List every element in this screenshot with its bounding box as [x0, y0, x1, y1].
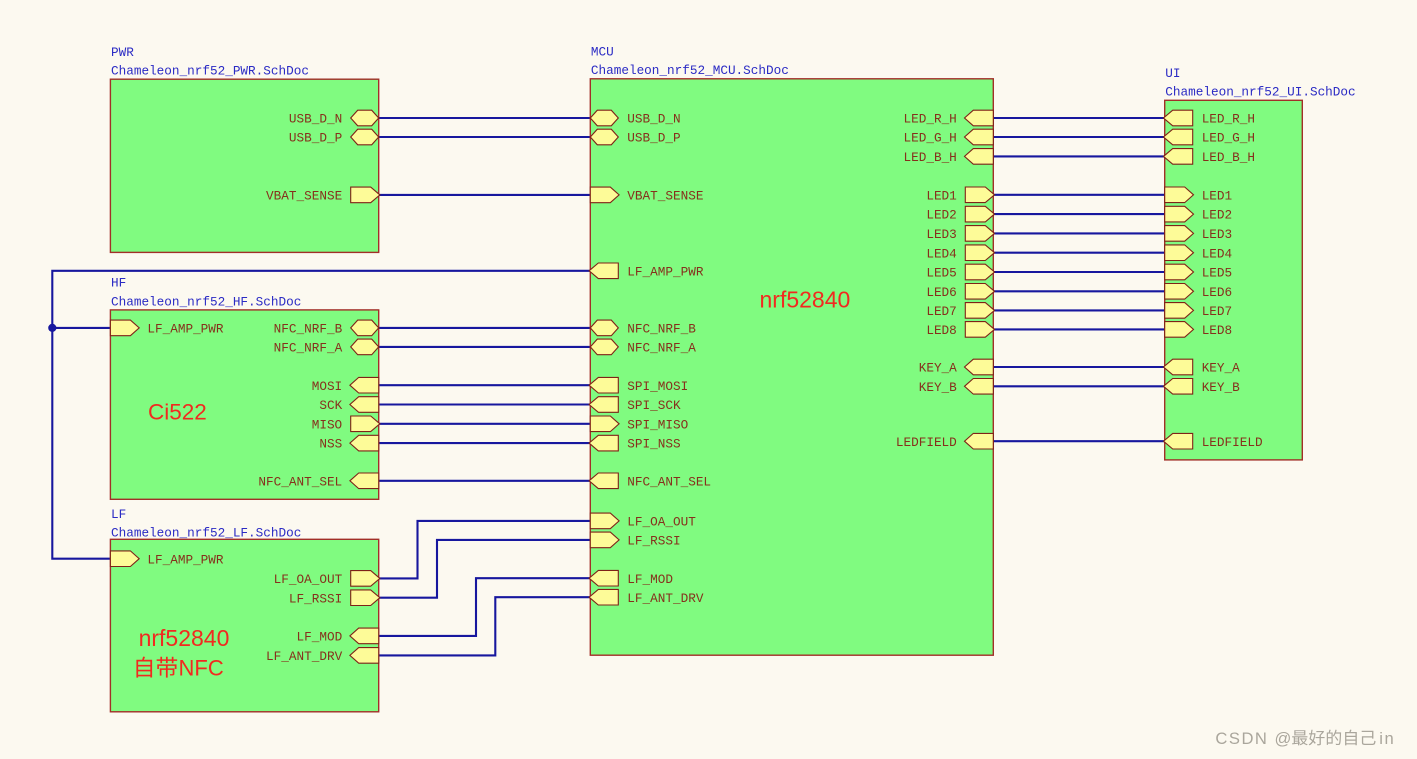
port KEY_A (MCU) [919, 359, 994, 375]
svg-text:NFC_ANT_SEL: NFC_ANT_SEL [627, 474, 711, 489]
svg-text:LF: LF [111, 507, 126, 522]
wire LEDFIELD [993, 440, 1164, 442]
wire KEY_B [993, 385, 1164, 387]
wire LED_R_H [993, 117, 1164, 119]
svg-text:LED3: LED3 [926, 227, 956, 242]
port SCK (HF) [319, 397, 378, 413]
svg-text:USB_D_N: USB_D_N [627, 112, 680, 127]
wire LED4 [993, 252, 1164, 254]
port USB_D_N (MCU) [590, 110, 680, 126]
wire USB_D_N [379, 117, 591, 119]
svg-text:UI: UI [1165, 66, 1180, 81]
port LED4 (UI) [1165, 245, 1232, 261]
wire LED5 [993, 271, 1164, 273]
wire LED2 [993, 213, 1164, 215]
svg-text:Chameleon_nrf52_LF.SchDoc: Chameleon_nrf52_LF.SchDoc [111, 526, 301, 541]
svg-text:LED8: LED8 [1202, 323, 1232, 338]
wire LF_MOD [379, 578, 591, 636]
port LF_MOD (LF) [297, 628, 379, 644]
svg-text:MOSI: MOSI [312, 379, 342, 394]
sheet symbol HF title [111, 276, 301, 310]
port SPI_SCK (MCU) [589, 397, 681, 413]
svg-text:USB_D_N: USB_D_N [289, 112, 342, 127]
svg-text:USB_D_P: USB_D_P [627, 131, 680, 146]
sheet symbol PWR [110, 79, 378, 252]
port LED7 (MCU) [926, 303, 994, 319]
svg-text:Ci522: Ci522 [148, 399, 207, 424]
port LEDFIELD (MCU) [896, 433, 993, 449]
sheet symbol LF [110, 539, 378, 712]
svg-text:MISO: MISO [312, 417, 342, 432]
svg-text:KEY_B: KEY_B [919, 380, 957, 395]
wire VBAT_SENSE [379, 194, 591, 196]
port LED1 (MCU) [926, 187, 994, 203]
port LED_R_H (UI) [1164, 110, 1255, 126]
svg-text:LF_OA_OUT: LF_OA_OUT [627, 515, 696, 530]
wire LF_RSSI [379, 540, 591, 598]
svg-text:LF_ANT_DRV: LF_ANT_DRV [627, 591, 704, 606]
wire KEY_A [993, 366, 1164, 368]
svg-text:NFC: NFC [179, 656, 224, 681]
svg-text:NFC_NRF_B: NFC_NRF_B [274, 322, 343, 337]
svg-text:LED6: LED6 [926, 285, 956, 300]
svg-text:nrf52840: nrf52840 [760, 286, 851, 312]
svg-text:LED_B_H: LED_B_H [904, 150, 957, 165]
port LF_AMP_PWR (LF) [110, 551, 224, 567]
svg-text:LF_AMP_PWR: LF_AMP_PWR [627, 264, 704, 279]
svg-text:LED_R_H: LED_R_H [904, 112, 957, 127]
svg-text:LF_AMP_PWR: LF_AMP_PWR [147, 322, 224, 337]
svg-text:SPI_MISO: SPI_MISO [627, 417, 688, 432]
port LED_B_H (MCU) [904, 149, 994, 165]
svg-text:LF_ANT_DRV: LF_ANT_DRV [266, 649, 343, 664]
port NFC_NRF_A (MCU) [590, 339, 696, 355]
port SPI_MOSI (MCU) [589, 377, 688, 393]
wire NFC_NRF_B [379, 327, 591, 329]
wire LED3 [993, 232, 1164, 234]
wire LED6 [993, 290, 1164, 292]
wire LED8 [993, 328, 1164, 330]
svg-text:LED_G_H: LED_G_H [904, 131, 957, 146]
wire SPI_NSS [379, 442, 591, 444]
svg-text:KEY_A: KEY_A [1202, 361, 1240, 376]
svg-text:LED1: LED1 [926, 188, 956, 203]
port LED4 (MCU) [926, 245, 994, 261]
svg-text:NFC_NRF_B: NFC_NRF_B [627, 322, 696, 337]
wire NFC_NRF_A [379, 346, 591, 348]
svg-text:LED2: LED2 [1202, 208, 1232, 223]
sheet symbol UI [1165, 100, 1303, 460]
port LF_OA_OUT (LF) [274, 571, 380, 587]
svg-text:MCU: MCU [591, 45, 614, 60]
svg-text:NFC_NRF_A: NFC_NRF_A [627, 341, 696, 356]
port LF_AMP_PWR (HF) [110, 320, 224, 336]
svg-text:SPI_SCK: SPI_SCK [627, 398, 681, 413]
junction LF_AMP_PWR node [48, 324, 56, 332]
port MISO (HF) [312, 416, 380, 432]
svg-text:LED5: LED5 [926, 266, 956, 281]
port VBAT_SENSE (PWR) [266, 187, 380, 203]
wire NFC_ANT_SEL [379, 480, 591, 482]
port SPI_NSS (MCU) [589, 435, 680, 451]
svg-text:LED7: LED7 [1202, 304, 1232, 319]
port LED5 (UI) [1165, 264, 1232, 280]
note 自带NFC (LF) [136, 656, 223, 681]
svg-text:KEY_B: KEY_B [1202, 380, 1240, 395]
svg-text:LF_RSSI: LF_RSSI [627, 534, 680, 549]
svg-text:PWR: PWR [111, 45, 134, 60]
svg-text:LED5: LED5 [1202, 266, 1232, 281]
wire SPI_MOSI [379, 384, 591, 386]
port LED1 (UI) [1165, 187, 1232, 203]
wire USB_D_P [379, 136, 591, 138]
wire LF_ANT_DRV [379, 597, 591, 655]
wire SPI_SCK [379, 403, 591, 405]
svg-text:Chameleon_nrf52_MCU.SchDoc: Chameleon_nrf52_MCU.SchDoc [591, 63, 789, 78]
port KEY_B (UI) [1164, 379, 1241, 395]
svg-text:LED_B_H: LED_B_H [1202, 150, 1255, 165]
port MOSI (HF) [312, 377, 379, 393]
port NSS (HF) [319, 435, 378, 451]
port LED6 (UI) [1165, 284, 1232, 300]
watermark CSDN @最好的自己in [1215, 729, 1395, 748]
wire LF_OA_OUT [379, 521, 591, 579]
wire LED_G_H [993, 136, 1164, 138]
wire LED7 [993, 309, 1164, 311]
svg-text:Chameleon_nrf52_HF.SchDoc: Chameleon_nrf52_HF.SchDoc [111, 294, 301, 309]
port LF_RSSI (LF) [289, 590, 380, 606]
svg-text:LED4: LED4 [926, 246, 956, 261]
port LED8 (MCU) [926, 322, 994, 338]
port NFC_ANT_SEL (HF) [258, 473, 378, 489]
svg-text:NFC_ANT_SEL: NFC_ANT_SEL [258, 474, 342, 489]
port LEDFIELD (UI) [1164, 433, 1263, 449]
svg-text:NFC_NRF_A: NFC_NRF_A [274, 341, 343, 356]
sheet symbol HF [110, 310, 378, 499]
port LED2 (MCU) [926, 206, 994, 222]
port SPI_MISO (MCU) [590, 416, 688, 432]
port NFC_ANT_SEL (MCU) [589, 473, 711, 489]
port USB_D_P (PWR) [289, 129, 379, 145]
port LED6 (MCU) [926, 284, 994, 300]
wire SPI_MISO [379, 423, 591, 425]
port LED5 (MCU) [926, 264, 994, 280]
svg-text:LED3: LED3 [1202, 227, 1232, 242]
svg-text:Chameleon_nrf52_UI.SchDoc: Chameleon_nrf52_UI.SchDoc [1165, 85, 1355, 100]
port KEY_B (MCU) [919, 379, 994, 395]
port USB_D_P (MCU) [590, 129, 680, 145]
svg-text:LF_MOD: LF_MOD [627, 572, 673, 587]
port NFC_NRF_B (HF) [274, 320, 379, 336]
svg-text:LEDFIELD: LEDFIELD [896, 435, 957, 450]
port LED3 (MCU) [926, 226, 994, 242]
svg-text:SCK: SCK [319, 398, 342, 413]
wire LF_AMP_PWR branch to HF [52, 327, 110, 329]
sheet symbol MCU title [591, 45, 789, 79]
port LF_ANT_DRV (LF) [266, 648, 379, 664]
svg-text:LED_R_H: LED_R_H [1202, 112, 1255, 127]
port LF_OA_OUT (MCU) [590, 513, 696, 529]
svg-text:VBAT_SENSE: VBAT_SENSE [266, 189, 342, 204]
svg-text:LF_RSSI: LF_RSSI [289, 591, 342, 606]
svg-text:NSS: NSS [319, 437, 342, 452]
port LED_G_H (MCU) [904, 129, 994, 145]
port LED7 (UI) [1165, 303, 1232, 319]
port KEY_A (UI) [1164, 359, 1241, 375]
wire LED1 [993, 194, 1164, 196]
port NFC_NRF_A (HF) [274, 339, 379, 355]
port USB_D_N (PWR) [289, 110, 379, 126]
sheet symbol MCU [590, 79, 993, 655]
svg-text:SPI_NSS: SPI_NSS [627, 437, 680, 452]
port LED3 (UI) [1165, 226, 1232, 242]
port LED8 (UI) [1165, 322, 1232, 338]
svg-text:LEDFIELD: LEDFIELD [1202, 435, 1263, 450]
svg-text:nrf52840: nrf52840 [139, 625, 230, 651]
svg-text:CSDN @: CSDN @ [1215, 729, 1292, 748]
svg-text:LED7: LED7 [926, 304, 956, 319]
svg-text:LED6: LED6 [1202, 285, 1232, 300]
svg-text:SPI_MOSI: SPI_MOSI [627, 379, 688, 394]
sheet symbol PWR title [111, 45, 309, 79]
port VBAT_SENSE (MCU) [590, 187, 703, 203]
svg-text:LED_G_H: LED_G_H [1202, 131, 1255, 146]
wire LED_B_H [993, 155, 1164, 157]
svg-text:KEY_A: KEY_A [919, 361, 957, 376]
wire LF_AMP_PWR trunk [52, 271, 590, 559]
svg-text:Chameleon_nrf52_PWR.SchDoc: Chameleon_nrf52_PWR.SchDoc [111, 64, 309, 79]
port LED_B_H (UI) [1164, 149, 1255, 165]
svg-text:LED2: LED2 [926, 208, 956, 223]
port LF_RSSI (MCU) [590, 532, 680, 548]
svg-text:HF: HF [111, 276, 126, 291]
port NFC_NRF_B (MCU) [590, 320, 696, 336]
svg-text:LF_OA_OUT: LF_OA_OUT [274, 572, 343, 587]
port LED_G_H (UI) [1164, 129, 1255, 145]
svg-text:LED8: LED8 [926, 323, 956, 338]
port LED_R_H (MCU) [904, 110, 994, 126]
svg-text:LED1: LED1 [1202, 188, 1232, 203]
svg-text:LF_MOD: LF_MOD [297, 630, 343, 645]
svg-text:LED4: LED4 [1202, 246, 1232, 261]
svg-text:in: in [1379, 729, 1395, 748]
sheet symbol LF title [111, 507, 301, 541]
port LF_AMP_PWR (MCU) [589, 263, 704, 279]
svg-text:LF_AMP_PWR: LF_AMP_PWR [147, 552, 224, 567]
sheet symbol UI title [1165, 66, 1355, 100]
svg-text:VBAT_SENSE: VBAT_SENSE [627, 189, 703, 204]
port LED2 (UI) [1165, 206, 1232, 222]
svg-text:USB_D_P: USB_D_P [289, 131, 342, 146]
port LF_ANT_DRV (MCU) [589, 589, 704, 605]
port LF_MOD (MCU) [589, 570, 673, 586]
